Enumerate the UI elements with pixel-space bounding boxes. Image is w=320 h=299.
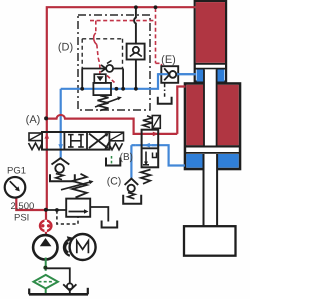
svg-text:PSI: PSI <box>14 212 29 223</box>
svg-text:(A): (A) <box>26 114 41 126</box>
svg-text:(C): (C) <box>107 176 122 188</box>
svg-text:2,500: 2,500 <box>11 201 35 212</box>
svg-text:(B): (B) <box>120 152 133 163</box>
svg-text:PG1: PG1 <box>7 166 26 177</box>
svg-text:(E): (E) <box>161 54 176 66</box>
svg-text:(D): (D) <box>58 42 73 54</box>
